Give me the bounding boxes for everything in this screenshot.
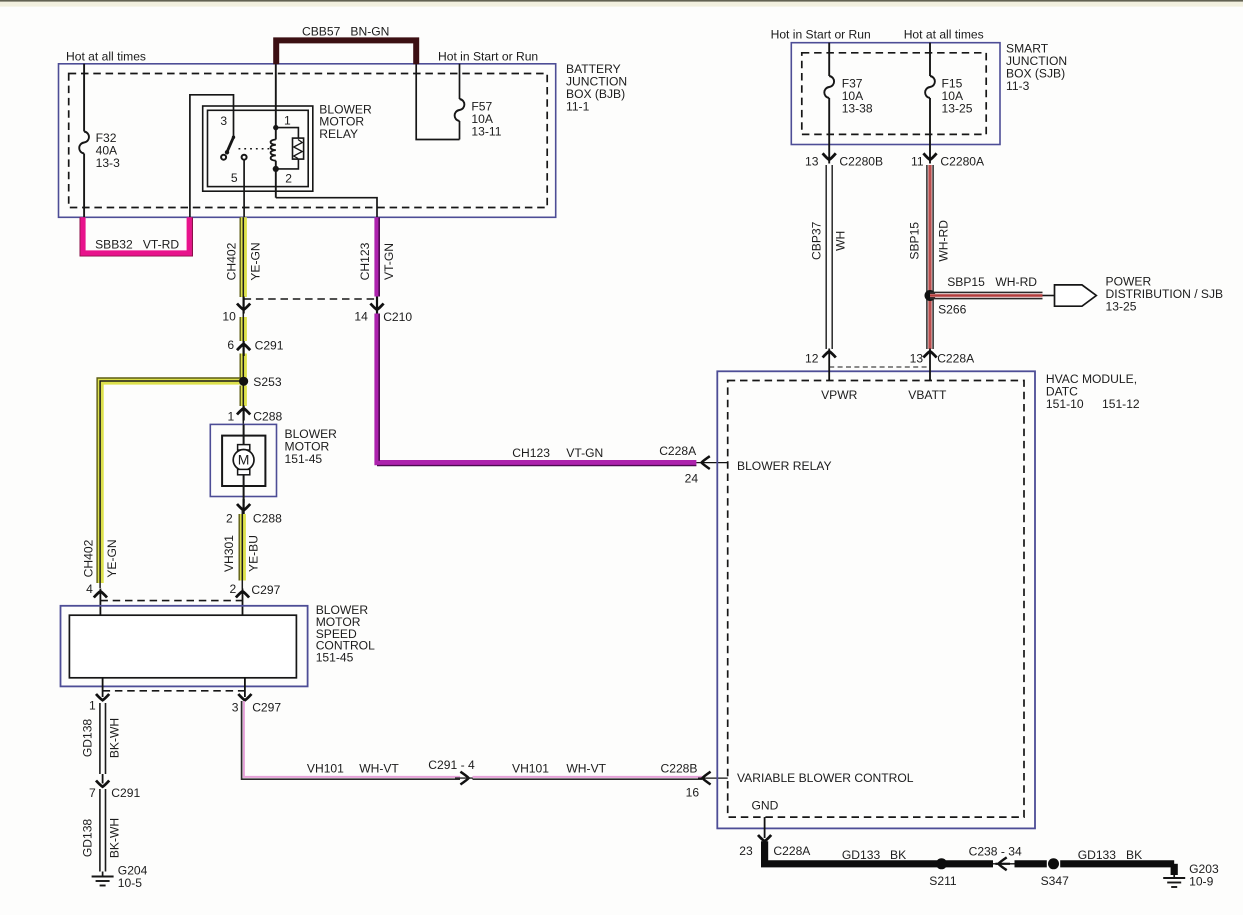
svg-text:2: 2 [226, 512, 233, 526]
svg-text:CBP37: CBP37 [810, 221, 824, 260]
connector pin 23 C228A arrow down GND [739, 817, 811, 858]
svg-text:10: 10 [222, 309, 236, 323]
svg-text:VT-GN: VT-GN [382, 243, 396, 280]
svg-text:VPWR: VPWR [821, 388, 858, 402]
wire GD138 BK-WH lower [80, 789, 121, 872]
svg-text:C210: C210 [383, 310, 412, 324]
svg-text:13: 13 [805, 154, 819, 168]
svg-text:C291: C291 [111, 786, 140, 800]
connector C291-4 arrow right [428, 758, 475, 785]
svg-text:RELAY: RELAY [319, 127, 358, 141]
wire CBB57 BN-GN thick brown [276, 24, 416, 64]
connector pin 4 arrow up [86, 582, 107, 615]
svg-text:151-45: 151-45 [316, 651, 354, 665]
svg-text:C228A: C228A [659, 444, 697, 458]
connector pin 13 C2280B arrow down [805, 153, 883, 168]
wire CH402 YE-GN vertical [225, 217, 263, 424]
svg-text:10-5: 10-5 [118, 876, 142, 890]
svg-text:YE-GN: YE-GN [105, 539, 119, 577]
svg-text:SBB32 VT-RD: SBB32 VT-RD [95, 237, 179, 251]
svg-text:C228A: C228A [937, 352, 975, 366]
svg-text:13: 13 [910, 352, 924, 366]
connector pin 2 C297 arrow up [230, 582, 281, 615]
svg-text:CH402: CH402 [225, 242, 239, 280]
svg-text:C238 - 34: C238 - 34 [969, 845, 1022, 859]
wire GD133 BK thick ground wire [765, 841, 1175, 875]
wire SBP15 WH-RD branch to power distribution [930, 275, 1055, 299]
svg-text:11-1: 11-1 [566, 99, 590, 113]
ground G203 [1163, 862, 1219, 889]
svg-text:S347: S347 [1041, 874, 1070, 888]
svg-text:C2280B: C2280B [839, 154, 883, 168]
svg-text:BK-WH: BK-WH [107, 818, 121, 858]
svg-text:GND: GND [752, 799, 779, 813]
svg-text:151-10: 151-10 [1046, 397, 1084, 411]
svg-text:23: 23 [739, 844, 753, 858]
svg-text:13-3: 13-3 [96, 156, 120, 170]
HVAC module DATC box [717, 371, 1140, 828]
fuse F32 40A [79, 64, 120, 218]
connector pin 10 arrow down [222, 297, 250, 324]
wire VH101 WH-VT segment 1 [242, 701, 460, 779]
svg-text:C288: C288 [253, 512, 282, 526]
wire VH301 YE-BU [222, 510, 261, 589]
connector C228B arrow left pin 16 [661, 762, 728, 800]
svg-text:GD133: GD133 [1078, 848, 1117, 862]
connector pin 14 C210 arrow down [354, 297, 412, 325]
battery junction box BJB [59, 62, 628, 218]
svg-text:4: 4 [86, 582, 93, 596]
blower motor relay box [203, 103, 372, 192]
fuse F15 10A [925, 43, 973, 164]
svg-text:Hot at all times: Hot at all times [66, 49, 146, 63]
connector pin 2 C288 arrow down [226, 499, 282, 526]
wire CH123 VT-GN vertical [358, 217, 396, 296]
svg-text:C291: C291 [255, 338, 284, 352]
wire relay pin2 to CH123 [276, 198, 377, 218]
blower motor speed control box [61, 603, 376, 686]
svg-text:VH101: VH101 [307, 762, 344, 776]
svg-text:WH-RD: WH-RD [937, 220, 951, 262]
connector dashed line C228A row [829, 366, 930, 368]
connector C238-34 arrow left [969, 845, 1022, 871]
svg-text:BK: BK [890, 848, 906, 862]
motor M symbol [233, 424, 254, 503]
connector pin 7 C291 arrow down [89, 774, 140, 800]
connector dashed line C210 row [244, 298, 376, 300]
wire SBB32 VT-RD thick magenta [80, 217, 192, 256]
svg-text:YE-GN: YE-GN [249, 242, 263, 280]
svg-text:10-9: 10-9 [1189, 875, 1213, 889]
svg-text:5: 5 [231, 171, 238, 185]
svg-text:C228A: C228A [773, 844, 811, 858]
svg-text:Hot at all times: Hot at all times [904, 27, 984, 41]
connector pin 1 arrow down [89, 678, 109, 713]
wire GD138 BK-WH upper [80, 703, 121, 774]
off-page arrow POWER DISTRIBUTION / SJB [1055, 275, 1224, 314]
svg-text:C2280A: C2280A [940, 154, 985, 168]
svg-text:C228B: C228B [661, 762, 698, 776]
svg-text:S266: S266 [938, 303, 967, 317]
svg-text:Hot in Start or Run: Hot in Start or Run [438, 49, 538, 63]
svg-text:GD138: GD138 [80, 719, 94, 758]
svg-text:BLOWER RELAY: BLOWER RELAY [737, 459, 832, 473]
svg-text:16: 16 [686, 785, 700, 799]
svg-text:M: M [238, 452, 250, 468]
connector pin 6 C291 arrow up [227, 338, 283, 356]
svg-text:13-25: 13-25 [942, 102, 973, 116]
splice S253 [239, 375, 282, 389]
fuse F37 10A [824, 43, 873, 164]
wire SBP15 WH-RD [908, 165, 951, 349]
svg-text:S253: S253 [253, 375, 282, 389]
svg-text:GD138: GD138 [80, 819, 94, 858]
svg-text:CBB57 BN-GN: CBB57 BN-GN [302, 24, 389, 38]
svg-text:3: 3 [220, 114, 227, 128]
connector C228A arrow left pin 24 [696, 456, 727, 469]
svg-text:WH-VT: WH-VT [566, 762, 606, 776]
svg-text:1: 1 [228, 409, 235, 423]
wire VH101 WH-VT segment 2 [473, 762, 703, 780]
speed control connector dashed bottom [103, 690, 245, 692]
svg-text:C288: C288 [253, 409, 282, 423]
splice S211 [929, 858, 957, 888]
svg-text:VH101: VH101 [512, 762, 549, 776]
svg-text:3: 3 [232, 701, 239, 715]
svg-text:GD133: GD133 [842, 848, 881, 862]
svg-text:151-12: 151-12 [1102, 397, 1140, 411]
connector pin 3 C297 arrow down [232, 678, 282, 715]
relay switch arm pins 3-5 [221, 136, 271, 218]
svg-text:CH123: CH123 [512, 446, 550, 460]
connector pin 12 arrow up [805, 349, 836, 381]
wire CBP37 WH [810, 165, 848, 349]
svg-text:VBATT: VBATT [908, 388, 947, 402]
blower motor box [210, 424, 337, 496]
svg-text:C297: C297 [252, 701, 281, 715]
svg-text:151-45: 151-45 [285, 452, 323, 466]
svg-text:2: 2 [285, 172, 292, 186]
svg-text:12: 12 [805, 352, 819, 366]
splice S347 [1041, 858, 1070, 888]
smart junction box SJB [791, 42, 1067, 145]
wire CH402 YE-GN branch left from S253 [82, 378, 244, 588]
svg-text:24: 24 [685, 471, 699, 485]
svg-text:WH-VT: WH-VT [359, 762, 399, 776]
svg-text:VH301: VH301 [222, 535, 236, 572]
svg-text:CH402: CH402 [82, 539, 96, 577]
relay coil pins 1-2 [271, 64, 279, 198]
splice S266 [925, 290, 967, 317]
svg-text:Hot in Start or Run: Hot in Start or Run [771, 27, 871, 41]
connector pin 13 C228A arrow up [910, 349, 976, 381]
speed control connector dashed top [100, 600, 243, 602]
svg-text:BK: BK [1126, 848, 1142, 862]
svg-text:YE-BU: YE-BU [247, 535, 261, 572]
svg-text:13-38: 13-38 [842, 102, 873, 116]
wire from SBB32 up to relay pin 3 [190, 95, 234, 218]
svg-text:6: 6 [227, 338, 234, 352]
svg-text:13-25: 13-25 [1106, 300, 1137, 314]
svg-text:WH: WH [834, 231, 848, 251]
svg-text:CH123: CH123 [358, 242, 372, 280]
svg-text:11: 11 [911, 154, 924, 168]
connector pin 1 C288 arrow up [228, 406, 283, 424]
svg-text:13-11: 13-11 [471, 125, 501, 139]
svg-text:C297: C297 [251, 583, 280, 597]
svg-text:C291 - 4: C291 - 4 [428, 758, 475, 772]
svg-text:VT-GN: VT-GN [566, 446, 603, 460]
svg-text:2: 2 [230, 582, 237, 596]
svg-text:SBP15: SBP15 [947, 275, 985, 289]
svg-text:1: 1 [89, 699, 96, 713]
connector pin 11 C2280A arrow down [911, 153, 985, 168]
wire CH123 VT-GN to HVAC blower relay [377, 314, 698, 486]
svg-text:14: 14 [354, 309, 368, 323]
svg-text:1: 1 [284, 114, 291, 128]
svg-text:S211: S211 [929, 874, 957, 888]
svg-text:VARIABLE BLOWER CONTROL: VARIABLE BLOWER CONTROL [737, 771, 914, 785]
relay resistor parallel [276, 128, 304, 169]
fuse F57 10A [416, 64, 502, 140]
svg-text:SBP15: SBP15 [908, 222, 922, 260]
svg-text:11-3: 11-3 [1006, 79, 1030, 93]
ground G204 [92, 864, 148, 891]
svg-text:7: 7 [89, 786, 96, 800]
svg-text:BK-WH: BK-WH [107, 718, 121, 758]
svg-text:WH-RD: WH-RD [995, 275, 1037, 289]
